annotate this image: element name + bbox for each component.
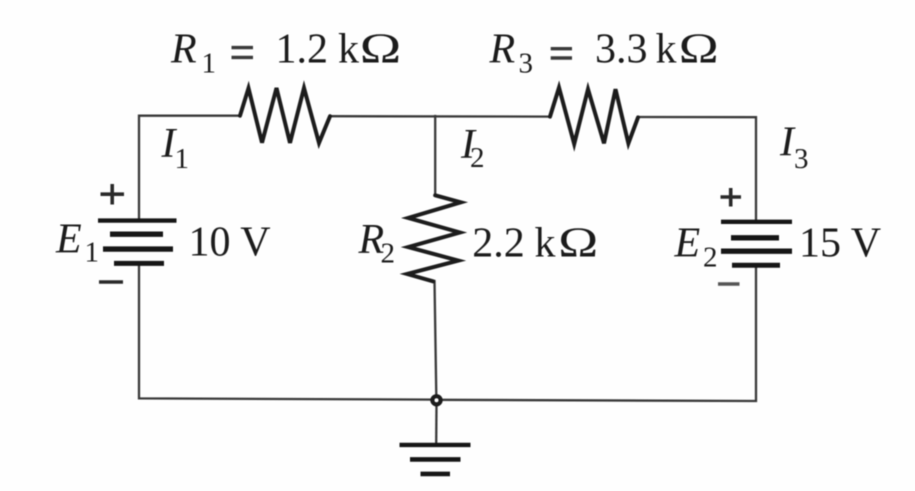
svg-text:3.3: 3.3 [595,27,648,73]
svg-text:k: k [656,27,677,73]
svg-text:3: 3 [519,48,534,80]
svg-text:2: 2 [470,142,485,174]
svg-text:R: R [170,27,197,73]
svg-text:Ω: Ω [679,26,719,72]
svg-text:2: 2 [703,242,718,274]
svg-text:E: E [55,217,82,263]
svg-text:Ω: Ω [360,25,402,72]
svg-text:10 V: 10 V [189,220,271,266]
svg-text:2.2: 2.2 [472,221,525,267]
svg-text:k: k [535,221,556,267]
svg-text:k: k [338,27,359,73]
svg-text:1: 1 [175,143,190,175]
svg-text:Ω: Ω [558,220,598,266]
svg-text:E: E [674,221,701,267]
svg-text:3: 3 [794,143,809,175]
svg-text:1: 1 [85,237,100,269]
svg-text:1.2: 1.2 [276,27,329,73]
svg-text:2: 2 [381,238,396,270]
svg-text:R: R [489,27,516,73]
svg-text:1: 1 [202,48,217,80]
svg-text:15 V: 15 V [799,221,881,267]
